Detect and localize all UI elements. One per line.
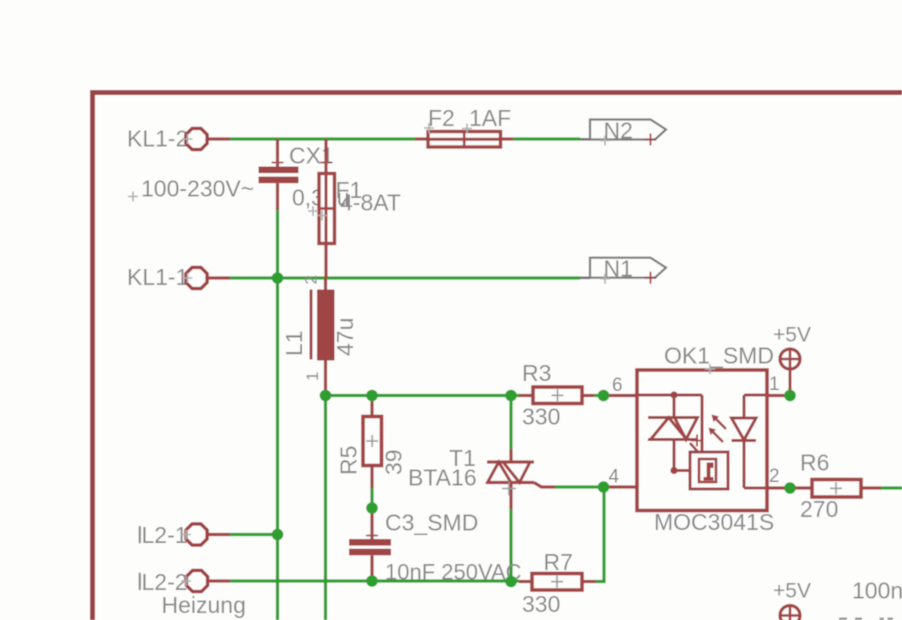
svg-text:39: 39 (381, 449, 407, 475)
svg-text:OK1_SMD: OK1_SMD (664, 343, 774, 369)
pin 6 wire of OK1 (606, 375, 637, 396)
connector KL1-2 (127, 126, 230, 152)
svg-text:L1: L1 (281, 330, 307, 356)
junction at C3 bottom (366, 575, 378, 587)
svg-text:270: 270 (800, 496, 838, 522)
supply +5V bottom (773, 580, 811, 620)
junction at R5 top (366, 390, 378, 402)
svg-text:Heizung: Heizung (162, 592, 246, 618)
svg-text:N2: N2 (604, 118, 633, 144)
wire F2 to N2 (513, 137, 580, 140)
junction at pin1/+5V (784, 390, 796, 402)
capacitor CX1 (259, 139, 350, 211)
svg-text:1: 1 (303, 372, 322, 381)
wire T1 MT2 (509, 396, 512, 450)
svg-text:KL1-1: KL1-1 (127, 264, 188, 290)
pin 2 wire of OK1 (767, 466, 812, 488)
wire L1 output column down (324, 396, 327, 620)
pin 1 wire of OK1 (767, 374, 785, 396)
junction at pin2/R6 (784, 482, 796, 494)
junction at T1 MT2 (505, 390, 517, 402)
svg-text:47u: 47u (332, 318, 358, 356)
wire net KL1-1 to N1 (230, 276, 580, 279)
svg-text:6: 6 (612, 375, 623, 396)
resistor R3 (519, 360, 594, 430)
svg-text:4: 4 (609, 467, 620, 488)
wire net KL1-2 to F2 (230, 137, 415, 140)
junction at R5/C3 (366, 502, 378, 514)
svg-text:N1: N1 (604, 256, 633, 282)
label Heizung (162, 592, 246, 618)
junction at gate/pin4 (598, 481, 610, 493)
resistor R7 (519, 549, 596, 617)
wire R6 to right edge (880, 486, 902, 489)
svg-text:R5: R5 (336, 446, 362, 475)
fuse F2 (415, 105, 513, 147)
wire T1 gate to OK1 pin4 (555, 485, 606, 488)
supply +5V top (773, 324, 811, 391)
wire R5 to C3 (370, 487, 373, 510)
svg-text:4-8AT: 4-8AT (340, 190, 401, 216)
resistor R5 (336, 396, 407, 489)
pin 4 wire of OK1 (606, 467, 637, 488)
svg-text:R7: R7 (544, 549, 573, 575)
resistor R6 (800, 450, 881, 523)
svg-text:330: 330 (522, 404, 560, 430)
junction at T1 MT1 (505, 576, 517, 588)
node N1 flag (580, 256, 666, 284)
label 100-230V~ (128, 176, 254, 202)
svg-text:330: 330 (522, 591, 560, 617)
svg-text:1: 1 (769, 374, 780, 395)
wire R7 up to pin4 node (596, 487, 604, 582)
capacitor C3_SMD (349, 508, 522, 585)
wire +5V to OK1 pin1 (788, 388, 791, 396)
svg-text:R3: R3 (522, 360, 551, 386)
junction at R3/pin6 (598, 390, 610, 402)
svg-text:100n: 100n (852, 578, 902, 604)
svg-text:C3_SMD: C3_SMD (385, 510, 478, 536)
svg-text:2: 2 (769, 466, 780, 487)
node N2 flag (580, 118, 666, 146)
svg-text:100-230V~: 100-230V~ (141, 176, 254, 202)
wire KL2-2 row (230, 579, 519, 582)
junction at KL2-1 (272, 529, 284, 541)
fuse F1 (308, 139, 401, 278)
connector KL1-1 (127, 264, 230, 290)
connector KL2-1 (139, 522, 230, 548)
svg-text:KL1-2: KL1-2 (127, 126, 188, 152)
svg-text:1AF: 1AF (469, 105, 511, 131)
wire CX1 bottom to KL2-1 column (276, 210, 279, 620)
junction at L1 output (320, 390, 332, 402)
svg-text:BTA16: BTA16 (408, 465, 477, 491)
svg-text:L2-1: L2-1 (142, 522, 188, 548)
svg-text:10nF 250VAC: 10nF 250VAC (385, 560, 522, 585)
inductor L1 (281, 275, 358, 396)
triac T1 (408, 445, 555, 509)
wire R3 to OK1 pin6 (594, 394, 605, 397)
svg-text:+5V: +5V (773, 580, 811, 603)
junction at CX1/KL1-1 (272, 272, 284, 284)
label 100n (852, 578, 902, 604)
svg-text:2: 2 (302, 275, 321, 284)
connector KL2-2 (139, 569, 230, 595)
wire KL2-1 to column (230, 533, 278, 536)
label clipped bottom right (839, 618, 893, 620)
svg-text:MOC3041S: MOC3041S (654, 509, 774, 535)
wire T1 MT1 down (509, 509, 512, 581)
svg-text:R6: R6 (800, 450, 829, 476)
svg-text:+5V: +5V (773, 324, 811, 347)
optocoupler OK1 MOC3041S (637, 343, 774, 536)
wire row L1 out to R3 (326, 394, 521, 397)
svg-text:F2: F2 (428, 105, 455, 131)
